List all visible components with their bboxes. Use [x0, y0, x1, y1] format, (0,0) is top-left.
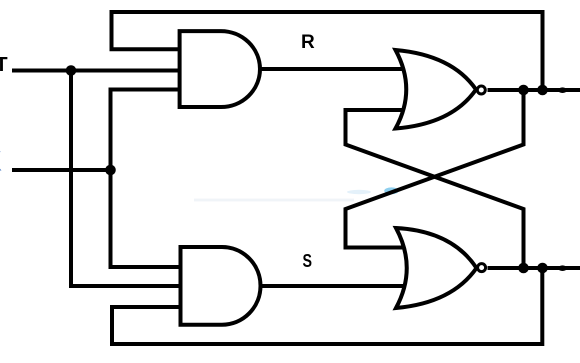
wire C dropper to AND2 top input — [111, 170, 183, 267]
and-gate G2 (bottom AND) — [181, 247, 261, 325]
wire C input line — [12, 168, 112, 172]
wire Q-bar output tick — [558, 265, 567, 271]
junction Q dot 1 — [518, 85, 529, 96]
wire Q output — [488, 88, 580, 92]
wire Q-bar cross-couple to NOR1 lower input — [346, 110, 524, 268]
junction Q-bar dot 1 — [518, 263, 529, 274]
nor-gate G3 body (top NOR) — [396, 50, 477, 129]
wire T input line — [12, 69, 182, 73]
nor-gate G4 body (bottom NOR) — [396, 228, 477, 308]
wire Q-bar output — [488, 266, 580, 270]
wire Q-bar feedback via bottom border to AND2 bottom input — [112, 268, 542, 344]
wire R net: AND1 output to NOR1 upper input — [256, 67, 406, 71]
svg-text:S: S — [303, 250, 313, 271]
and-gate G1 (top AND) — [180, 31, 260, 107]
svg-text:T: T — [0, 54, 8, 76]
wire T branch to AND2 middle input — [71, 71, 182, 287]
svg-text:K: K — [0, 146, 2, 177]
junction Q dot 2 — [537, 85, 548, 96]
wire C riser to AND1 bottom input — [111, 90, 183, 171]
watermark smudge (decorative) — [194, 187, 399, 201]
junction C node — [105, 165, 116, 176]
nor-gate G3 bubble — [477, 86, 485, 94]
wire Q feedback via top border to AND1 top input — [112, 12, 543, 90]
wire S net: AND2 output to NOR2 lower input — [256, 284, 406, 288]
svg-text:R: R — [301, 32, 315, 53]
wire Q output tick — [558, 87, 567, 93]
nor-gate G4 bubble — [478, 264, 486, 272]
junction T node — [66, 65, 77, 76]
wire Q cross-couple to NOR2 upper input — [346, 90, 524, 248]
junction Q-bar dot 2 — [537, 263, 548, 274]
